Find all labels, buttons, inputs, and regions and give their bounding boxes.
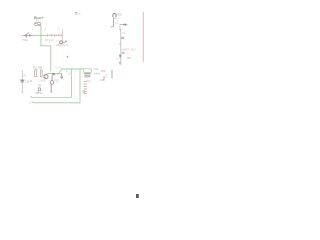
junction dot [83,91,85,92]
jack plus [65,40,67,42]
battery BT1 [47,34,63,37]
capacitor C6 [122,52,125,53]
junction dot [38,92,40,94]
power arrow [119,62,122,65]
fuse F1 [35,22,41,25]
transistor Q1 [44,74,48,79]
svg-text:R3 1k: R3 1k [36,91,43,95]
svg-text:J2: J2 [55,41,58,43]
jack J2 [59,41,65,44]
svg-text:1A2: 1A2 [126,57,131,60]
svg-text:c2: c2 [68,72,71,75]
power flag [75,12,77,15]
wire B+ [142,12,144,62]
svg-text:C3 x: C3 x [86,80,92,83]
wire [32,69,72,97]
connector J1 [111,17,114,26]
svg-text:R1 10k: R1 10k [33,65,42,69]
svg-text:1a: 1a [105,77,108,79]
tick [119,43,121,45]
svg-text:p3: p3 [116,59,119,61]
wire [34,34,48,36]
wire [120,24,128,26]
marks right [103,76,105,81]
label net1 [31,96,32,99]
resistor R3 [39,88,41,91]
transistor Q2 [50,76,54,92]
svg-text:Q1: Q1 [38,83,42,87]
speaker LS1 green box [84,69,92,73]
crystal Y1 [84,73,90,76]
diode D1 chain [21,70,23,92]
svg-text:8ohm: 8ohm [94,73,100,76]
regulator U2 ref [113,14,116,18]
wire stub [111,70,113,79]
svg-text:BT1 9V: BT1 9V [45,38,54,42]
svg-text:2N39: 2N39 [40,80,46,83]
wire [62,68,84,70]
svg-text:1: 1 [45,28,47,31]
svg-text:in 2: in 2 [115,22,119,24]
jack lead [56,44,68,46]
svg-text:7805: 7805 [116,13,122,16]
svg-text:2: 2 [58,28,60,31]
resistor R2 [40,70,42,77]
resistor R1 [35,70,37,77]
junction dot [40,35,42,37]
power flag small [66,56,68,58]
svg-text:pw: pw [78,13,81,16]
pins cluster [84,82,87,94]
diode D2 [53,73,55,76]
capacitor C5 [121,37,124,38]
svg-text:c4: c4 [123,33,126,35]
svg-text:D1: D1 [23,73,27,77]
switch SW1 [23,32,34,38]
capacitor C1 [60,74,63,79]
wire [34,69,81,103]
wire [41,26,51,72]
diode D1 [20,80,30,83]
svg-text:2v: 2v [126,53,129,56]
svg-text:1N4: 1N4 [25,80,30,83]
svg-text:+BATT_ADJ: +BATT_ADJ [122,48,137,51]
svg-text:v2: v2 [29,103,32,105]
diode D4 [124,24,126,26]
wire diagonal [58,69,63,75]
svg-text:SW1: SW1 [23,38,29,42]
node stub [30,80,32,83]
svg-text:LS1: LS1 [94,67,99,71]
diode D5 [119,55,121,57]
svg-text:SPK: SPK [101,70,106,73]
svg-text:Q2: Q2 [55,78,59,82]
page mark [136,194,139,198]
label net2 [32,102,34,103]
wire [119,26,122,64]
wire [62,30,64,44]
svg-text:1s: 1s [58,46,61,48]
wire [47,73,62,75]
